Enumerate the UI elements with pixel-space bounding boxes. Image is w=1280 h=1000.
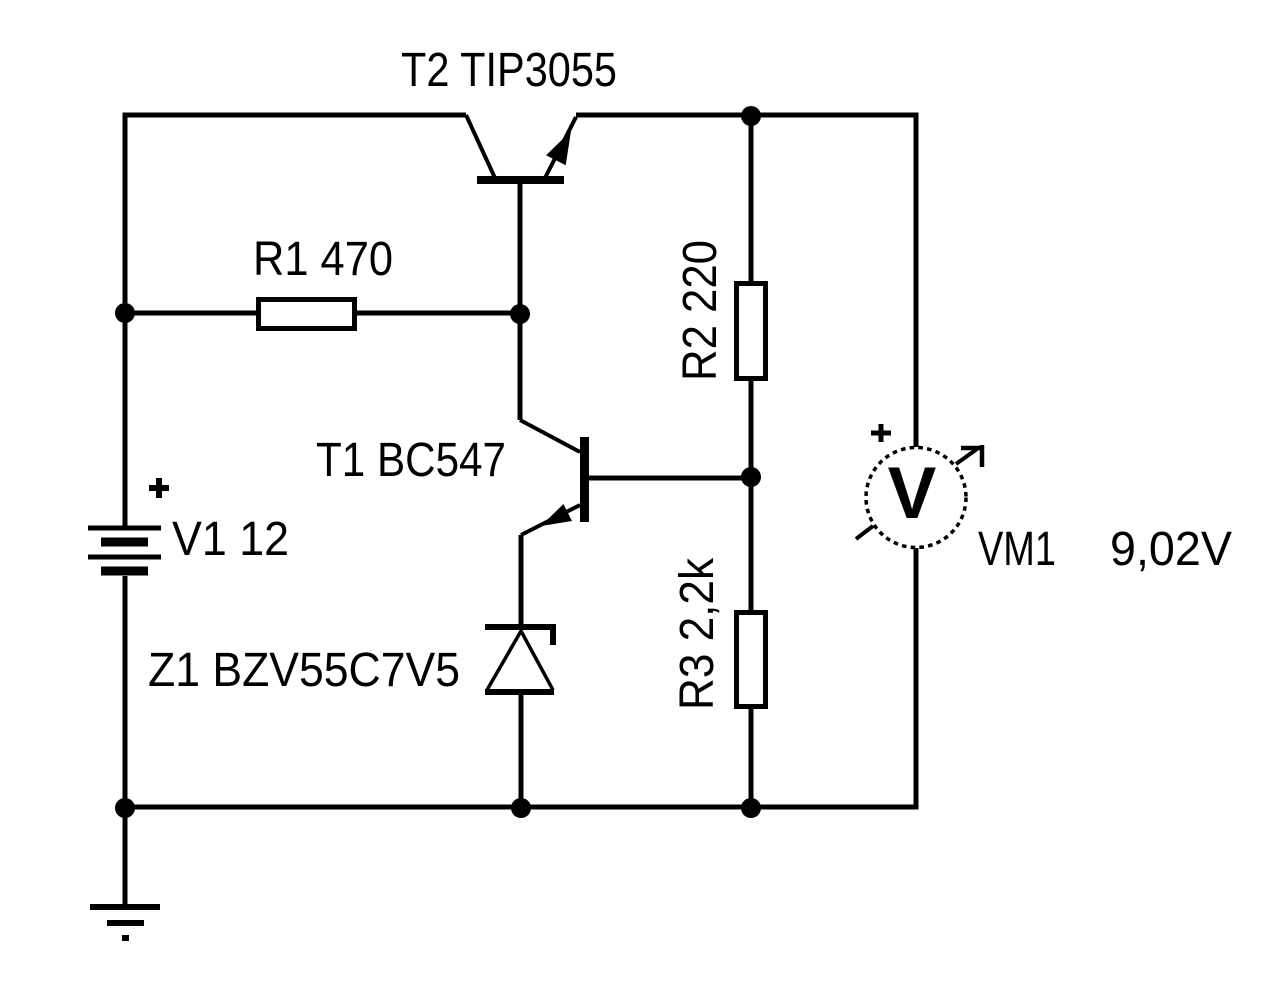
resistor R1 body bbox=[259, 300, 355, 329]
wire zener to bottom rail bbox=[519, 692, 524, 808]
wire R3 bottom lead bbox=[749, 709, 754, 808]
transistor T1 emitter arrow bbox=[541, 504, 572, 526]
voltmeter plus sign bbox=[871, 424, 891, 442]
node dot left rail / R1 bbox=[115, 303, 135, 323]
transistor T2 base bar bbox=[477, 176, 564, 184]
wire left rail lower (battery to bottom rail) bbox=[123, 576, 128, 807]
svg-text:V1 12: V1 12 bbox=[172, 513, 289, 566]
transistor T1 base bar bbox=[580, 437, 589, 522]
resistor R2 body bbox=[737, 284, 766, 379]
voltmeter arrow shaft upper bbox=[956, 449, 977, 464]
wire R3 top lead bbox=[749, 477, 754, 610]
svg-text:VM1: VM1 bbox=[978, 523, 1056, 576]
wire T1 base lead bbox=[589, 476, 751, 481]
transistor T2 emitter diagonal bbox=[545, 117, 576, 178]
zener Z1 cathode bar with bent end bbox=[485, 627, 553, 645]
zener Z1 anode bar bbox=[485, 689, 554, 695]
transistor T1 emitter diagonal bbox=[521, 505, 580, 535]
node dot R1 / T2 base / T1 collector bbox=[510, 304, 530, 324]
wire R1 right lead bbox=[357, 311, 520, 316]
transistor T2 collector diagonal bbox=[466, 115, 495, 178]
node dot divider (T1 base / R2 / R3) bbox=[741, 467, 761, 487]
wire R1 left lead bbox=[125, 311, 256, 316]
node dot bottom rail / zener bbox=[511, 798, 531, 818]
wire T1 collector vertical bbox=[518, 314, 523, 420]
wire T2 base down to R1 node bbox=[518, 184, 523, 313]
zener Z1 triangle bbox=[487, 631, 553, 690]
battery V1 plate 3 long bbox=[88, 555, 161, 560]
svg-text:R2 220: R2 220 bbox=[674, 240, 727, 381]
wire T1 emitter down to zener bbox=[519, 535, 524, 625]
svg-text:T2 TIP3055: T2 TIP3055 bbox=[401, 44, 617, 97]
svg-text:R3 2,2k: R3 2,2k bbox=[671, 557, 724, 710]
svg-text:T1 BC547: T1 BC547 bbox=[316, 434, 506, 487]
node dot bottom rail / battery bbox=[115, 798, 135, 818]
wire R2 bottom lead bbox=[749, 381, 754, 477]
node dot bottom rail / R3 bbox=[741, 798, 761, 818]
battery V1 plate 4 short thick bbox=[101, 567, 148, 576]
battery V1 plate 1 long bbox=[88, 526, 161, 531]
resistor R3 body bbox=[737, 613, 766, 707]
wire top rail left segment + left rail upper bbox=[125, 115, 466, 526]
transistor T2 emitter arrow bbox=[546, 131, 571, 165]
ground bar 2 bbox=[107, 920, 144, 926]
wire top rail right segment + right rail down to voltmeter bbox=[576, 115, 916, 447]
svg-text:9,02V: 9,02V bbox=[1110, 523, 1232, 576]
voltmeter arrow shaft lower bbox=[856, 526, 873, 539]
battery V1 plate 2 short thick bbox=[101, 538, 148, 547]
node dot top rail / R2 bbox=[741, 106, 761, 126]
ground stem bbox=[123, 808, 128, 904]
voltmeter VM1 circle bbox=[866, 448, 966, 548]
wire voltmeter bottom + bottom rail bbox=[123, 548, 916, 807]
ground bar 1 bbox=[90, 904, 160, 910]
svg-text:R1 470: R1 470 bbox=[253, 233, 393, 286]
battery V1 plus sign bbox=[149, 478, 169, 498]
svg-text:Z1 BZV55C7V5: Z1 BZV55C7V5 bbox=[148, 644, 460, 697]
ground bar 3 bbox=[122, 935, 129, 941]
voltmeter arrow head bbox=[961, 445, 984, 467]
transistor T1 collector diagonal bbox=[520, 420, 580, 452]
svg-text:V: V bbox=[888, 453, 937, 534]
wire R2 top lead bbox=[749, 115, 754, 281]
